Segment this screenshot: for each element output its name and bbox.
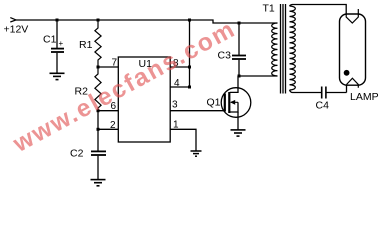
- node: pin4 end: [188, 86, 191, 89]
- node: pin6 junction: [97, 109, 100, 112]
- lamp bottom electrode: [347, 78, 359, 88]
- wire: pin 1 to ground: [170, 129, 196, 151]
- svg-text:C4: C4: [316, 100, 330, 112]
- ground (Q1 source): [231, 130, 246, 136]
- node: drain junction: [238, 75, 241, 78]
- node: R1 top: [97, 19, 100, 22]
- svg-text:C2: C2: [70, 148, 84, 160]
- transformer T1 secondary: [290, 6, 296, 90]
- svg-text:7: 7: [112, 58, 118, 69]
- svg-text:Q1: Q1: [207, 97, 221, 109]
- wire: pin 7: [98, 66, 118, 68]
- node: C1 tap: [56, 19, 59, 22]
- ground (pin 1): [191, 151, 202, 156]
- transformer T1 primary: [272, 23, 278, 76]
- resistor R1: [79, 20, 101, 67]
- svg-text:+: +: [59, 39, 64, 48]
- resistor R2: [75, 67, 102, 111]
- svg-text:C1: C1: [43, 34, 57, 46]
- wire: pin 6: [98, 110, 118, 112]
- wire: pin 4: [170, 86, 189, 88]
- svg-text:R1: R1: [79, 39, 93, 51]
- node: pin2 junction: [97, 128, 100, 131]
- lamp cathode dot: [344, 70, 350, 76]
- wire: main +12V rail: [16, 20, 278, 23]
- transformer T1 core: [281, 4, 286, 94]
- svg-text:C3: C3: [218, 50, 232, 62]
- capacitor C2: [70, 129, 106, 179]
- wire: secondary top lead to lamp: [290, 5, 347, 18]
- node: pin7 junction: [97, 66, 100, 69]
- +12V input arrow: [10, 18, 16, 22]
- svg-text:2: 2: [110, 120, 116, 131]
- capacitor C1: [43, 20, 64, 73]
- wire: secondary bottom lead: [290, 90, 322, 93]
- lamp tube: [340, 14, 366, 85]
- wire: right rail pins 8/4: [189, 20, 191, 87]
- svg-text:T1: T1: [263, 3, 275, 15]
- wire: pin 8: [170, 66, 189, 68]
- wire: pin 3 to Q1 gate: [170, 110, 224, 112]
- wire: drain to primary bottom: [239, 75, 278, 77]
- svg-text:LAMP: LAMP: [350, 91, 379, 103]
- svg-text:+12V: +12V: [4, 24, 29, 36]
- svg-text:3: 3: [172, 100, 178, 111]
- transistor Q1: [207, 76, 251, 130]
- node: top rail tap: [188, 19, 191, 22]
- IC U1: [118, 57, 170, 142]
- node: C3 top tap: [238, 22, 241, 25]
- ground (C1): [50, 73, 65, 79]
- wire: pin 2: [98, 128, 118, 130]
- ground (C2): [91, 180, 106, 186]
- lamp top electrode: [346, 9, 358, 23]
- capacitor C4: [316, 87, 347, 112]
- wire: left rail pin6 to pin2: [97, 111, 99, 130]
- capacitor C3: [218, 23, 247, 76]
- wire: C4 up to lamp bottom pin: [346, 85, 348, 93]
- node: pin8 corner: [188, 66, 191, 69]
